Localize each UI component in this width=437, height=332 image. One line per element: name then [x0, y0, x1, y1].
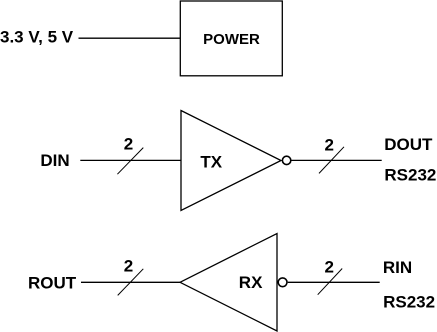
svg-text:POWER: POWER — [203, 31, 260, 48]
svg-text:RIN: RIN — [383, 258, 412, 277]
power block POWER — [180, 1, 282, 76]
bus-width slash RIN wire — [318, 269, 343, 295]
svg-text:2: 2 — [325, 257, 334, 276]
bus-width slash ROUT wire — [118, 269, 144, 296]
svg-text:3.3 V, 5 V: 3.3 V, 5 V — [0, 28, 74, 47]
wire ROUT to RX output — [81, 281, 180, 283]
svg-text:DIN: DIN — [40, 151, 69, 170]
svg-text:TX: TX — [200, 152, 222, 171]
svg-text:RS232: RS232 — [384, 165, 436, 184]
inverting bubble TX output — [282, 156, 290, 164]
bus-width slash DIN wire — [117, 148, 143, 175]
buffer RX — [180, 234, 277, 332]
svg-text:RX: RX — [239, 273, 263, 292]
wire RX input to RIN — [288, 281, 380, 283]
wire TX output to DOUT — [292, 159, 382, 161]
svg-text:DOUT: DOUT — [384, 135, 433, 154]
svg-text:2: 2 — [325, 135, 334, 154]
svg-text:RS232: RS232 — [383, 292, 435, 311]
buffer TX — [181, 111, 281, 211]
svg-text:2: 2 — [124, 134, 133, 153]
inverting bubble RX input — [278, 278, 287, 287]
svg-text:2: 2 — [124, 256, 133, 275]
svg-text:ROUT: ROUT — [28, 274, 77, 293]
bus-width slash DOUT wire — [319, 147, 344, 174]
wire DIN to TX input — [80, 159, 181, 161]
wire supply to POWER block — [79, 37, 181, 39]
